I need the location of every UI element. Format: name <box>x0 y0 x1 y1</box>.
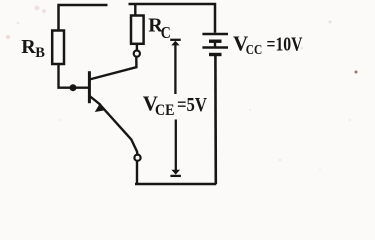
base bar <box>88 71 91 103</box>
wire battery lower lead <box>214 56 217 184</box>
svg-text:CC: CC <box>246 42 262 57</box>
svg-text:C: C <box>161 23 171 42</box>
wire RB bottom lead and base wire <box>59 64 90 88</box>
wire RC stub from top wire <box>134 5 136 16</box>
resistor RC <box>131 16 144 44</box>
VCE bottom bar <box>170 175 181 177</box>
wire top-right segment to battery branch <box>129 4 216 33</box>
paper background <box>0 0 375 189</box>
VCE measuring line top bar <box>170 39 181 41</box>
VCE up arrowhead <box>171 41 179 46</box>
svg-text:R: R <box>21 36 36 58</box>
short plate 2 <box>209 53 222 56</box>
VCE down arrowhead <box>171 170 180 175</box>
svg-text:=5V: =5V <box>177 94 207 116</box>
wire RC to collector terminal circle <box>136 44 138 51</box>
svg-text:B: B <box>35 45 45 61</box>
inter-cell stub <box>214 42 216 47</box>
svg-text:CE: CE <box>155 102 175 119</box>
emitter arrowhead <box>95 103 106 112</box>
long plate 2 <box>202 46 228 49</box>
VCE line lower segment <box>175 120 177 171</box>
wire top-left segment with RB branch corner <box>59 5 108 31</box>
junction dot on base wire <box>70 84 77 91</box>
VCE line upper segment <box>174 43 176 94</box>
collector terminal circle <box>134 51 140 57</box>
emitter terminal circle <box>134 155 140 161</box>
short plate 1 <box>209 40 222 43</box>
resistor RB <box>52 31 64 65</box>
wire emitter lower lead <box>136 161 138 184</box>
svg-text:=10V: =10V <box>267 35 303 56</box>
wire collector diagonal <box>90 57 137 80</box>
long plate 1 <box>202 33 228 36</box>
wire emitter diagonal <box>90 96 138 154</box>
transistor Q1 <box>89 71 137 154</box>
battery VCC <box>202 34 228 55</box>
wire bottom <box>135 183 216 186</box>
